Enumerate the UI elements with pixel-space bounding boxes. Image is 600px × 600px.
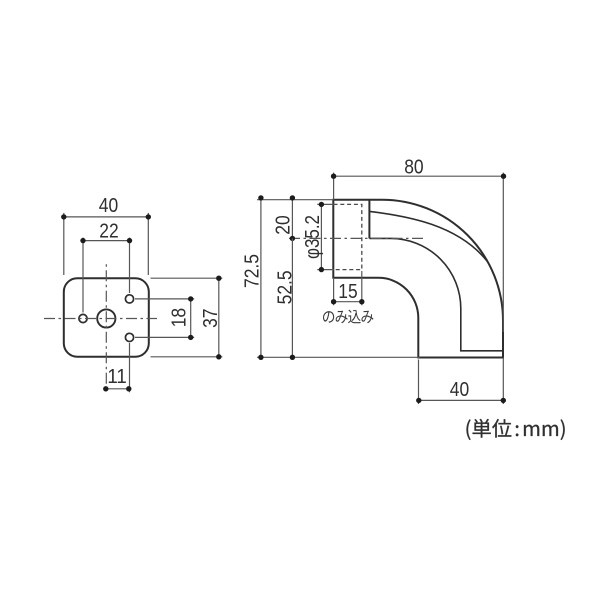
svg-text:40: 40 — [450, 379, 469, 401]
elbow upper tangent edge — [369, 211, 487, 261]
dimension 18 (right hole spacing) — [135, 296, 194, 340]
dimension 15 (insertion depth) — [331, 271, 365, 305]
svg-text:72.5: 72.5 — [241, 254, 263, 288]
mounting plate outline — [64, 278, 149, 357]
plate horizontal centerline — [44, 318, 157, 320]
dimension 22 (hole spacing) — [80, 221, 132, 313]
svg-text:37: 37 — [200, 309, 222, 328]
dimension 11 (hole offset) — [103, 343, 131, 392]
dimension 40 (plate width) — [61, 195, 151, 275]
dimension 37 (plate height) — [151, 276, 223, 360]
plate center hole — [97, 309, 115, 327]
unit note (単位:mm) — [466, 419, 564, 440]
svg-text:20: 20 — [273, 215, 295, 234]
dimension 80 (overall width) — [331, 156, 506, 332]
svg-text:18: 18 — [168, 308, 190, 327]
dimension φ35.2 (pipe diameter) — [302, 202, 334, 273]
elbow inner silhouette and bottom lip — [369, 238, 502, 350]
elbow socket mouth edge — [368, 200, 370, 239]
plate lower-right screw hole — [125, 333, 133, 341]
plate vertical centerline — [105, 264, 107, 391]
hidden pipe insertion (dashed) — [334, 204, 362, 269]
dimension 20 (top to axis) — [273, 195, 295, 241]
dimension 72.5 (overall height) — [241, 195, 420, 360]
elbow body outline — [333, 200, 503, 358]
dimension 40 (bottom opening) — [416, 358, 506, 405]
svg-text:52.5: 52.5 — [275, 270, 297, 304]
label のみ込み (insertion) — [323, 310, 373, 324]
svg-text:80: 80 — [404, 156, 423, 178]
svg-text:11: 11 — [107, 366, 126, 388]
svg-text:15: 15 — [338, 281, 357, 303]
svg-text:φ35.2: φ35.2 — [302, 215, 324, 259]
elbow axis centerline — [289, 237, 423, 239]
svg-text:40: 40 — [99, 195, 118, 217]
plate left screw hole — [79, 314, 87, 322]
svg-text:22: 22 — [99, 221, 118, 243]
plate upper-right screw hole — [125, 295, 133, 303]
dimension 52.5 (axis to bottom) — [275, 238, 297, 360]
